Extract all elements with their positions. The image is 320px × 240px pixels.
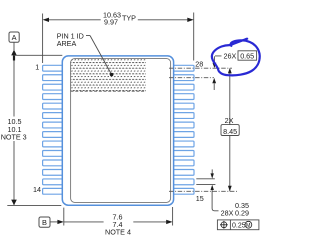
svg-text:NOTE 4: NOTE 4 (105, 228, 131, 237)
svg-text:0.25: 0.25 (232, 222, 246, 229)
svg-text:8.45: 8.45 (223, 127, 237, 136)
svg-text:26X: 26X (224, 51, 237, 60)
svg-text:AREA: AREA (57, 39, 77, 48)
svg-text:9.97: 9.97 (104, 18, 118, 27)
svg-text:TYP: TYP (122, 13, 136, 22)
svg-text:15: 15 (196, 194, 204, 203)
svg-text:14: 14 (33, 185, 41, 194)
svg-text:0.29: 0.29 (235, 209, 249, 218)
svg-text:0.65: 0.65 (240, 51, 254, 60)
svg-text:A: A (12, 33, 17, 42)
svg-text:B: B (42, 218, 47, 227)
svg-text:28: 28 (195, 59, 203, 68)
svg-text:2X: 2X (225, 116, 234, 125)
svg-text:1: 1 (35, 63, 39, 72)
svg-text:M: M (246, 223, 251, 229)
svg-text:NOTE 3: NOTE 3 (1, 133, 27, 142)
svg-text:28X: 28X (221, 209, 234, 218)
